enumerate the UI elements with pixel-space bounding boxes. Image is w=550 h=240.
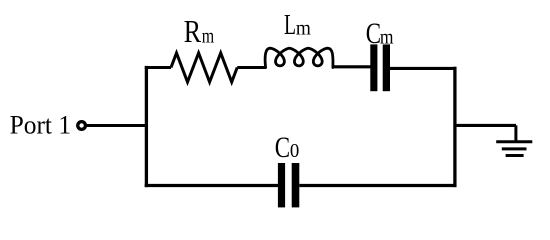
capacitor C0 plate right <box>292 163 300 207</box>
svg-text:m: m <box>202 26 215 48</box>
wire capacitor to right bus <box>390 67 457 70</box>
wire bottom right <box>299 184 456 187</box>
capacitor C1 plate right <box>383 44 390 91</box>
ground bar 3 <box>506 154 524 157</box>
svg-text:Port 1: Port 1 <box>10 110 72 140</box>
resistor R1 zigzag <box>171 53 237 82</box>
capacitor C0 plate left <box>278 163 285 207</box>
svg-text:L: L <box>284 10 296 41</box>
port terminal circle <box>78 122 86 130</box>
ground bar 1 <box>496 140 532 143</box>
wire left bus <box>145 66 148 187</box>
inductor L1 coil <box>265 48 333 67</box>
svg-text:C: C <box>275 131 290 164</box>
svg-text:0: 0 <box>290 141 299 162</box>
svg-text:m: m <box>296 19 311 40</box>
ground bar 2 <box>502 147 527 150</box>
ground stub <box>514 125 517 141</box>
wire inductor to capacitor <box>333 65 371 68</box>
svg-text:m: m <box>380 28 394 49</box>
wire port to left node <box>87 124 148 127</box>
svg-text:R: R <box>184 13 202 49</box>
wire resistor to inductor <box>237 66 266 69</box>
wire bottom left <box>145 184 279 187</box>
wire top left stub <box>145 66 171 69</box>
svg-text:C: C <box>366 17 381 50</box>
capacitor C1 plate left <box>370 44 377 91</box>
wire to ground <box>455 124 516 127</box>
wire right bus <box>453 67 456 187</box>
